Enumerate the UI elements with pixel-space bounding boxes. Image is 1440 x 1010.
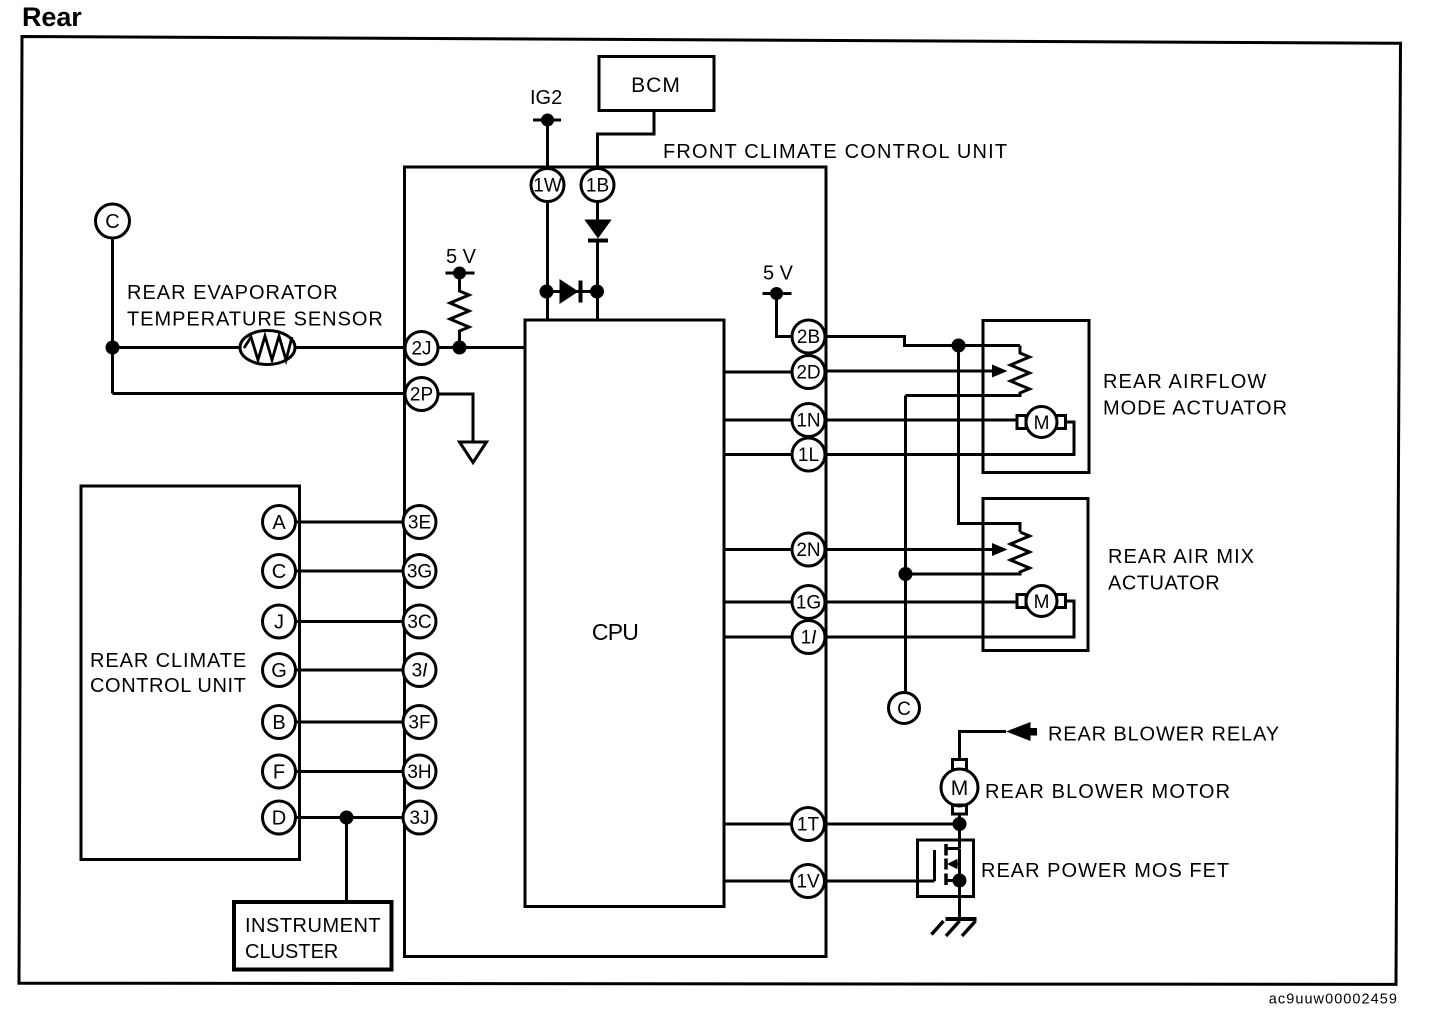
power terminal IG2 [530,87,562,127]
svg-text:REAR CLIMATE: REAR CLIMATE [90,650,247,672]
pin 2N [792,533,825,566]
svg-text:REAR BLOWER MOTOR: REAR BLOWER MOTOR [985,781,1231,803]
wire 1W to CPU [546,202,549,321]
svg-text:MODE ACTUATOR: MODE ACTUATOR [1103,398,1288,420]
wiper arrow from 2N [825,543,1008,556]
BCM box [599,57,714,111]
junction (1T / blower motor / mosfet) [953,817,967,831]
svg-text:2N: 2N [796,540,820,561]
instrument cluster box [234,902,392,970]
svg-text:3J: 3J [409,808,429,829]
junction (D wire / instrument cluster) [340,811,354,825]
wire to instrument cluster [345,818,348,903]
svg-text:D: D [272,808,286,830]
svg-text:ACTUATOR: ACTUATOR [1108,573,1220,595]
pin 1G [792,586,825,619]
pin 3G [403,555,436,588]
5 V supply (right) [763,263,794,301]
svg-text:2D: 2D [796,363,820,384]
wire 1B to diode D1 [596,202,599,220]
junction (1W line / D2) [540,285,554,299]
svg-text:Rear: Rear [22,2,82,32]
pin 1W [531,169,564,202]
svg-text:1N: 1N [796,411,820,432]
front climate control unit box [405,167,827,957]
wire F to 3H [296,770,404,773]
pin 1I [792,621,825,654]
svg-text:CONTROL UNIT: CONTROL UNIT [90,675,246,697]
pin 1T [792,808,825,841]
svg-text:3C: 3C [407,612,431,633]
wire 5V to 2B [777,294,793,337]
svg-text:3E: 3E [408,513,431,534]
CPU U1 box [525,320,724,907]
wire C to 3G [296,570,404,573]
wire IG2 to pin 1W [546,120,549,169]
connector C (bottom) [889,693,920,724]
rear climate control unit box [81,486,300,860]
wire junction down to air mix resistor [959,346,1021,533]
wire 2P to ground [438,394,473,442]
svg-text:CPU: CPU [592,619,638,645]
wire 1V to mosfet gate [825,880,935,883]
wire 1N to M1 [825,419,1017,422]
svg-text:2B: 2B [797,327,820,348]
svg-text:ac9uuw00002459: ac9uuw00002459 [1269,992,1398,1008]
svg-text:1G: 1G [796,593,821,614]
pin 2D [792,356,825,389]
wire 1T junction [825,823,960,826]
wire motor to mosfet [958,814,961,848]
motor M1 (airflow mode) [1017,407,1066,438]
pin 1V [792,865,825,898]
svg-text:C: C [272,561,286,583]
svg-text:2P: 2P [410,385,433,406]
svg-text:1L: 1L [798,445,819,466]
junction (1B line / D2) [590,285,604,299]
svg-text:FRONT CLIMATE CONTROL UNIT: FRONT CLIMATE CONTROL UNIT [663,141,1008,163]
5 V supply (left) [446,246,477,280]
chassis ground [932,919,977,936]
wire CPU to 1T [724,823,792,826]
svg-text:3F: 3F [408,713,430,734]
svg-text:TEMPERATURE SENSOR: TEMPERATURE SENSOR [127,309,384,331]
svg-text:F: F [273,762,285,784]
wire CPU to 1G [724,601,792,604]
rear evaporator temperature sensor (thermistor) [240,331,295,365]
svg-text:BCM: BCM [631,74,681,97]
rear air mix actuator box [983,499,1088,651]
resistor R1 pull-up [450,273,469,348]
pin F [263,755,296,788]
wire 2P row [113,392,406,395]
svg-text:1I: 1I [801,628,818,649]
rear blower motor M3 [941,760,978,815]
svg-text:1W: 1W [533,176,562,197]
wire CPU to 1L [724,453,792,456]
svg-text:M: M [951,777,969,800]
svg-text:1B: 1B [586,176,609,197]
wire 1L to M1 [825,422,1074,455]
wire C down [111,238,114,394]
connector C (top left) [96,204,130,238]
svg-text:REAR AIRFLOW: REAR AIRFLOW [1103,371,1267,393]
rear airflow mode actuator box [983,321,1089,473]
wire 2J to CPU [438,346,525,349]
pin 3C [403,605,436,638]
svg-text:J: J [274,612,284,634]
pin 3J [403,801,436,834]
svg-text:3H: 3H [407,762,431,783]
wire 2B to actuator resistors [825,337,1020,346]
junction (2B wire split) [952,339,966,353]
svg-text:5 V: 5 V [763,263,794,285]
potentiometer R3 (air mix) [906,532,1030,574]
svg-text:REAR POWER MOS FET: REAR POWER MOS FET [981,860,1230,882]
pin D [263,801,296,834]
diode D1 [584,220,611,321]
svg-text:M: M [1034,592,1050,613]
pin A [263,506,296,539]
pin 1B [581,169,614,202]
pin 3E [403,506,436,539]
rear blower relay arrow [1006,722,1037,741]
svg-text:1T: 1T [797,815,820,836]
wire CPU to 2D [724,371,792,374]
potentiometer R2 (airflow mode) [906,346,1030,396]
wire A to 3E [296,521,404,524]
junction (C wire / sensor wire) [106,341,120,355]
pin 3I [403,654,436,687]
pin C [263,555,296,588]
pin 2B [792,320,825,353]
mosfet Q1 rear power MOS FET [918,840,974,919]
svg-text:REAR BLOWER RELAY: REAR BLOWER RELAY [1048,724,1280,746]
wire J to 3C [296,620,404,623]
wire BCM to pin 1B [598,111,655,169]
svg-text:REAR AIR MIX: REAR AIR MIX [1108,546,1255,568]
pin 2J [405,332,438,365]
svg-text:IG2: IG2 [530,87,562,109]
wire CPU to 1N [724,419,792,422]
wire CPU to 2N [724,548,792,551]
svg-text:G: G [271,660,287,682]
motor M2 (air mix) [1017,586,1066,617]
wire CPU to 1V [724,880,792,883]
pin B [263,706,296,739]
wire resistor rail down to connector C [904,396,907,693]
wire G to 3I [296,669,404,672]
svg-text:CLUSTER: CLUSTER [245,941,338,963]
diode D2 (between 1W and 1B lines) [547,279,598,304]
wire 1I to M2 [825,601,1074,637]
pin 2P [405,378,438,411]
junction (rail / air mix resistor bottom) [899,567,913,581]
ground (signal ground under 2P) [460,442,487,463]
pin 1N [792,404,825,437]
svg-text:1V: 1V [796,872,820,893]
wire CPU to 1I [724,636,792,639]
wiper arrow from 2D [825,365,1008,378]
wire D to 3J [296,816,404,819]
svg-text:5 V: 5 V [446,246,477,268]
svg-text:C: C [897,699,911,720]
svg-text:INSTRUMENT: INSTRUMENT [245,915,381,937]
svg-text:3I: 3I [412,661,429,682]
svg-text:M: M [1034,413,1050,434]
wire 1G to M2 [825,601,1017,604]
svg-text:2J: 2J [411,339,431,360]
wire sensor row to 2J [113,346,406,349]
svg-text:3G: 3G [407,562,432,583]
pin 1L [792,438,825,471]
pin J [263,605,296,638]
wire to rear blower relay [960,732,1007,760]
svg-text:C: C [105,211,119,233]
svg-text:A: A [272,512,286,534]
wire B to 3F [296,721,404,724]
junction (R1 / 2J wire) [453,341,467,355]
pin 3H [403,755,436,788]
pin G [263,654,296,687]
pin 3F [403,706,436,739]
svg-text:REAR EVAPORATOR: REAR EVAPORATOR [127,282,339,304]
svg-text:B: B [272,712,285,734]
